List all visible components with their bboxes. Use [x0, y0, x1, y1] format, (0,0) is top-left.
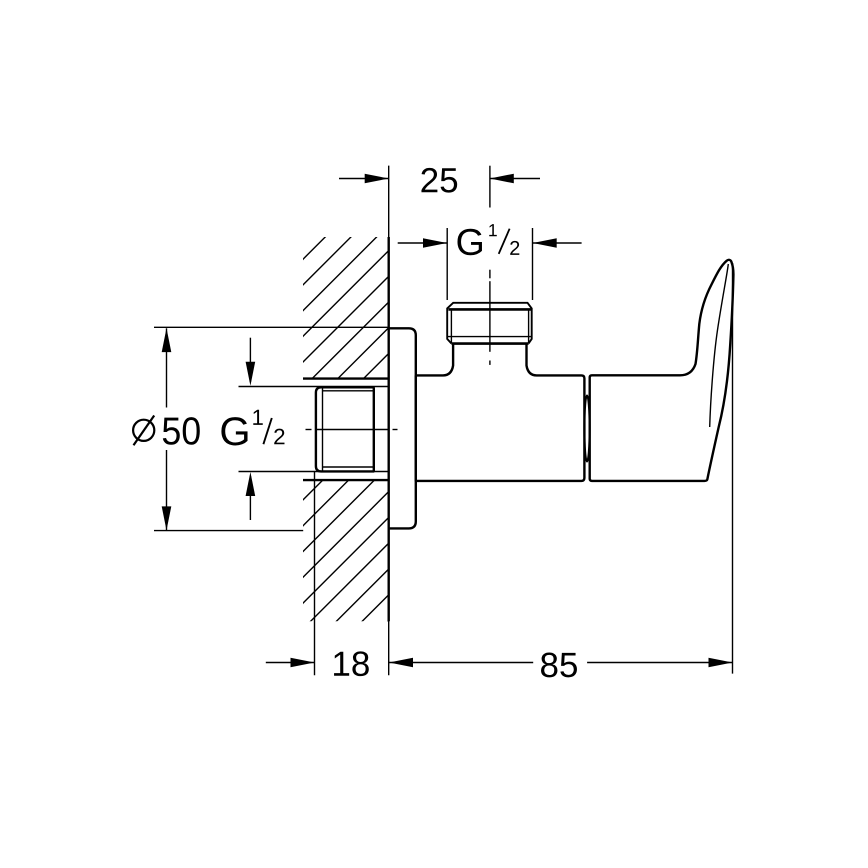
- wall hole bottom edge: [303, 479, 389, 481]
- arrowhead dim G1/2 left lower: [246, 472, 256, 496]
- arrowhead dim G1/2 left upper: [246, 362, 256, 386]
- valve body contour: [416, 344, 585, 481]
- top port centerline: [489, 166, 491, 365]
- fraction slash (left): [263, 418, 271, 444]
- label 18: [334, 651, 369, 676]
- top thread crest band: [448, 308, 531, 311]
- arrowhead dim 18 left: [291, 658, 315, 668]
- label 85: [541, 653, 577, 678]
- dim 25: [339, 178, 540, 180]
- arrowhead dim 85 right: [709, 658, 733, 668]
- arrowhead dim O50 up: [162, 328, 172, 352]
- arrowhead dim 18/85 shared: [389, 658, 413, 668]
- arrowhead dim G1/2 top right: [533, 238, 557, 248]
- diameter symbol slash: [134, 416, 155, 446]
- wall hatching upper section: [0, 216, 526, 616]
- label 25: [421, 168, 457, 193]
- label 50: [163, 417, 200, 445]
- label G (left thread size): [221, 417, 247, 445]
- valve body silhouette fill: [416, 303, 585, 481]
- label 1 superscript (left): [253, 410, 262, 425]
- dim G1/2 left: [239, 338, 389, 520]
- dim 18 / 85 bottom: [266, 263, 733, 675]
- top thread root lines: [448, 310, 533, 343]
- fraction slash (top): [499, 229, 510, 254]
- port centerline: [306, 429, 398, 431]
- dim Ø50: [166, 328, 168, 530]
- diameter symbol circle: [133, 420, 154, 441]
- wall surface line (right edge of wall): [388, 166, 390, 676]
- dim Ø50 bottom extension line: [154, 530, 303, 532]
- label G (top thread size): [457, 229, 481, 256]
- top thread bottom edge: [451, 342, 528, 345]
- wall hatching lower section: [0, 456, 553, 856]
- wall-inlet threaded port G1/2: [316, 387, 374, 471]
- label 2 subscript (left): [274, 429, 284, 445]
- valve stem seam between body and handle: [584, 396, 589, 462]
- label 2 subscript (top): [510, 241, 519, 255]
- arrowhead dim 25 right: [490, 174, 514, 184]
- arrowhead dim G1/2 top left: [423, 238, 447, 248]
- arrowhead dim 25 left: [365, 174, 389, 184]
- escutcheon flange: [388, 328, 416, 528]
- dim Ø50 top extension line: [154, 326, 389, 328]
- dim G1/2 top: [398, 228, 582, 300]
- arrowhead dim O50 down: [162, 506, 172, 530]
- wall hole top edge: [303, 377, 389, 379]
- handle: [590, 260, 734, 481]
- handle crease line: [710, 264, 729, 427]
- label 1 superscript (top): [489, 224, 497, 236]
- top thread cap outline with chamfers: [447, 303, 532, 344]
